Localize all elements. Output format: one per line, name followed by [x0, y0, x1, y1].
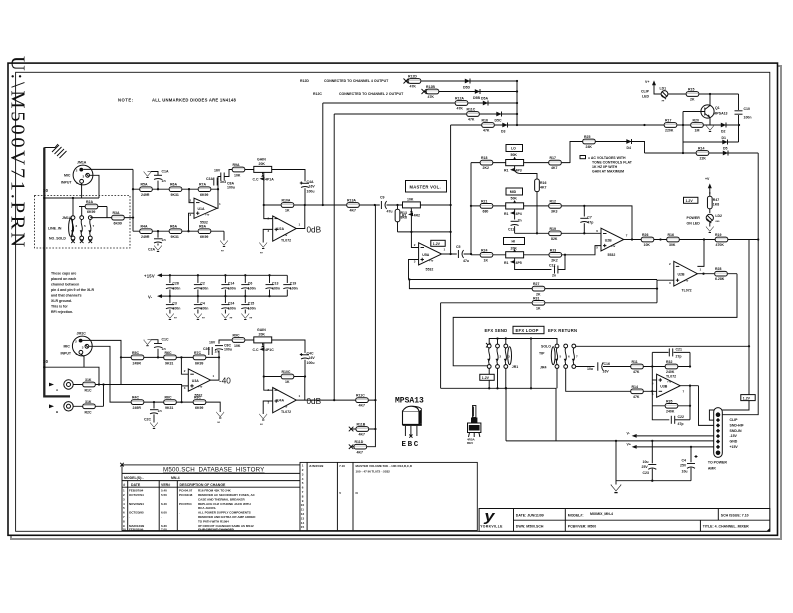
resistor R16 47K — [482, 119, 495, 133]
svg-text:6K99: 6K99 — [114, 222, 122, 226]
decoupling cap C14 100n — [221, 275, 235, 296]
svg-text:4P4: 4P4 — [516, 212, 522, 216]
resistor R20 1M — [691, 119, 704, 133]
LO pot label box — [506, 145, 523, 158]
resistor R13A 4K7 — [347, 199, 360, 213]
svg-text:CLIP: CLIP — [641, 90, 650, 94]
svg-text:C28: C28 — [172, 282, 178, 286]
svg-text:R16: R16 — [668, 233, 674, 237]
wire: channel A output bus vertical x=322.8 — [322, 103, 324, 205]
wire U1A output node x=218 — [217, 180, 218, 208]
svg-text:100n: 100n — [172, 286, 180, 290]
svg-text:EFX SEND: EFX SEND — [485, 328, 508, 333]
wire C bottom row y=402.1 — [122, 401, 206, 403]
connector pin 6 — [716, 439, 720, 443]
resistor R10C 1K — [281, 370, 294, 384]
svg-text:FEB/07/94: FEB/07/94 — [129, 489, 144, 493]
svg-text:R5C: R5C — [132, 351, 139, 355]
svg-text:1.2V: 1.2V — [433, 242, 441, 246]
svg-text:R23: R23 — [550, 248, 556, 252]
RCA jack B with arrow — [49, 402, 73, 414]
svg-text:100n: 100n — [228, 286, 236, 290]
svg-text:C4: C4 — [200, 302, 205, 306]
svg-text:This is for: This is for — [51, 305, 68, 309]
svg-text:4K7: 4K7 — [357, 450, 363, 454]
wire return amp input row y=366.5 — [625, 366, 690, 368]
svg-text:R1: R1 — [504, 212, 509, 216]
thick input ground wire x=44.3 — [44, 148, 70, 397]
wire x=506 down to gnd line — [505, 388, 507, 441]
svg-text:16V: 16V — [309, 184, 316, 188]
svg-text:MPSA13: MPSA13 — [714, 112, 728, 116]
EFX send jack JR1 — [486, 343, 518, 369]
svg-text:1K: 1K — [536, 307, 541, 311]
resistor R6C 9K31 — [164, 351, 177, 366]
svg-text:REV: REV — [467, 441, 473, 445]
wire: detector row y=153 — [645, 152, 759, 154]
resistor R11 47K — [631, 360, 644, 374]
svg-text:47K: 47K — [483, 129, 490, 133]
svg-text:C10: C10 — [744, 107, 750, 111]
wire 0dB feedback row y=205 — [264, 204, 451, 206]
svg-text:R13: R13 — [401, 211, 407, 215]
tone input bus vertical x=471 — [470, 163, 472, 255]
svg-text:R6A: R6A — [170, 183, 177, 187]
svg-text:GAIN: GAIN — [257, 158, 266, 162]
svg-text:R47: R47 — [713, 198, 719, 202]
svg-text:HI: HI — [512, 240, 516, 244]
resistor R8A 6K99 — [198, 225, 211, 240]
svg-text:R9C: R9C — [233, 334, 240, 338]
wire tone mid-row y=233.3 — [515, 232, 601, 234]
svg-text:47K: 47K — [633, 395, 640, 399]
XLR connector JM1C — [61, 332, 93, 357]
diode D5C — [495, 112, 502, 123]
svg-text:10u: 10u — [682, 470, 688, 474]
op-amp U1A — [190, 198, 222, 224]
svg-text:7.00: 7.00 — [161, 527, 167, 531]
capacitor C3C 1n — [203, 347, 219, 355]
resistor R7A 6K99 feedback — [198, 183, 211, 198]
svg-text:MASTER VOLUME 50K→10K R13,R,C,: MASTER VOLUME 50K→10K R13,R,C,D — [356, 464, 413, 468]
svg-text:TL072: TL072 — [666, 375, 676, 379]
mix bus vertical x=375.4 — [368, 205, 376, 447]
svg-text:47K: 47K — [457, 107, 464, 111]
wire loop down x=737 to y=317.4 — [453, 274, 737, 366]
svg-text:R1: R1 — [504, 261, 509, 265]
svg-text:R11C: R11C — [467, 108, 476, 112]
svg-text:16V: 16V — [214, 169, 221, 173]
svg-text:30K: 30K — [669, 243, 676, 247]
svg-text:6K99: 6K99 — [87, 210, 95, 214]
svg-text:TL072: TL072 — [281, 410, 291, 414]
svg-text:2n: 2n — [552, 274, 556, 278]
svg-text:SCH ISSUE: 7.10: SCH ISSUE: 7.10 — [721, 513, 749, 517]
svg-text:DESCRIPTION OF CHANGE: DESCRIPTION OF CHANGE — [180, 483, 227, 487]
svg-text:4K7: 4K7 — [350, 209, 356, 213]
svg-text:100n: 100n — [290, 286, 298, 290]
power-on LED branch: V+ arrow — [705, 177, 712, 194]
resistor R25 24K — [583, 135, 596, 149]
svg-text:8K8: 8K8 — [401, 216, 407, 220]
svg-text:V-: V- — [148, 294, 153, 299]
wire GND line y=440.9 — [506, 440, 714, 442]
svg-text:MIC: MIC — [64, 174, 71, 178]
svg-text:4R2: 4R2 — [414, 213, 420, 217]
resistor R12A — [455, 97, 468, 111]
+15V rail arrow — [144, 273, 162, 278]
svg-text:R10A: R10A — [282, 199, 291, 203]
capacitor C1C 1n with ground — [144, 338, 169, 358]
svg-text:INPUT: INPUT — [61, 352, 72, 356]
svg-text:C22: C22 — [678, 415, 684, 419]
connector pin 5 — [716, 434, 720, 438]
svg-text:680: 680 — [483, 209, 489, 213]
wire: summing bus vertical x=517 — [516, 81, 518, 125]
svg-text:C15: C15 — [248, 302, 254, 306]
svg-text:100n: 100n — [248, 306, 256, 310]
resistor R2C 31K — [73, 400, 103, 415]
wire U2A pin3 ground — [260, 229, 273, 255]
svg-text:JM1C: JM1C — [77, 332, 87, 336]
svg-text:U1A: U1A — [198, 207, 205, 211]
svg-text:20K: 20K — [511, 247, 518, 251]
history entries — [123, 489, 257, 532]
wire jack top bus y=338.5 — [489, 339, 557, 345]
potentiometer physical drawing — [467, 406, 481, 446]
resistor R13 8K8 vertical — [395, 205, 407, 232]
svg-text:POWER: POWER — [687, 216, 701, 220]
diode D1 — [683, 136, 739, 145]
TO POWER AMP label — [708, 461, 727, 471]
MASTER VOL. label box — [406, 181, 447, 193]
svg-text:GAIN: GAIN — [257, 328, 266, 332]
wire U2B2 pin3 from x=657 — [657, 280, 674, 303]
svg-text:and that channel's: and that channel's — [51, 294, 82, 298]
svg-text:V: V — [339, 491, 341, 495]
svg-text:0dB: 0dB — [307, 397, 322, 406]
wire x=758.2 junction from row — [757, 238, 759, 240]
capacitor C8A 100u 16V interstage — [214, 169, 235, 190]
svg-text:MIC: MIC — [64, 345, 71, 349]
svg-text:R11C: R11C — [356, 394, 365, 398]
wire: channel C output bus vertical x=334.2 — [333, 114, 335, 400]
svg-text:1.2V: 1.2V — [482, 376, 490, 380]
V- feed arrow — [627, 432, 714, 438]
svg-text:GND: GND — [730, 440, 738, 444]
svg-text:249R: 249R — [133, 406, 142, 410]
resistor R3A 6K99 — [90, 211, 133, 226]
svg-text:10: 10 — [123, 527, 127, 531]
svg-text:10u: 10u — [587, 367, 593, 371]
svg-text:Q1: Q1 — [715, 106, 720, 110]
junction dots on bus x=517 — [516, 80, 518, 82]
svg-text:16V: 16V — [603, 370, 610, 374]
svg-text:100n: 100n — [248, 286, 256, 290]
power connector shell — [714, 408, 723, 458]
svg-text:1K: 1K — [285, 380, 290, 384]
resistor R14 22K — [696, 147, 709, 161]
svg-text:C3A: C3A — [206, 177, 213, 181]
wire pot right to C4A top — [272, 170, 305, 182]
svg-text:R17: R17 — [665, 119, 671, 123]
master pot 4R2 10K — [402, 198, 420, 218]
svg-text:DATE: JUN/11/99: DATE: JUN/11/99 — [516, 513, 544, 517]
ground cap C4 — [194, 296, 208, 320]
svg-text:1K8: 1K8 — [713, 203, 719, 207]
svg-text:CASE AND THERMAL BREAKER: CASE AND THERMAL BREAKER — [198, 497, 246, 501]
svg-text:4P5: 4P5 — [516, 261, 522, 265]
svg-text:25V: 25V — [642, 465, 649, 469]
svg-text:100u: 100u — [307, 361, 315, 365]
svg-text:R6C: R6C — [165, 396, 172, 400]
svg-text:C.C: C.C — [253, 178, 260, 182]
svg-text:C16: C16 — [604, 362, 610, 366]
capacitor C16 10u 16V — [587, 362, 625, 374]
resistor R15 2K — [686, 88, 699, 102]
svg-text:100n: 100n — [172, 306, 180, 310]
svg-text:5.40: 5.40 — [161, 489, 167, 493]
svg-text:5.50: 5.50 — [161, 493, 167, 497]
svg-text:OCT/23/95: OCT/23/95 — [129, 511, 144, 515]
resistor R11B 4K7 (to ch2 out) — [349, 423, 376, 437]
svg-text:AMP.: AMP. — [708, 467, 716, 471]
svg-text:24K: 24K — [586, 145, 593, 149]
wire send bus corner x=749 to SND-HIF pin — [709, 240, 749, 421]
svg-text:1n: 1n — [162, 238, 166, 242]
svg-text:C14: C14 — [228, 282, 234, 286]
junction node collector — [709, 93, 711, 95]
wire V- rail y=296.1 — [162, 295, 287, 297]
connector pin 4 — [716, 429, 720, 433]
svg-text:1K HZ I/P WITH: 1K HZ I/P WITH — [592, 165, 618, 169]
wire channel A input vertical x=133 — [132, 169, 134, 231]
no-connect X on R12B — [422, 89, 427, 94]
svg-text:1K: 1K — [285, 209, 290, 213]
wire pot wiper down x=263.8 — [264, 172, 273, 218]
svg-text:47K: 47K — [633, 370, 640, 374]
svg-text:6K99: 6K99 — [200, 235, 208, 239]
resistor R16b 30K — [667, 233, 680, 247]
svg-text:D2: D2 — [721, 130, 726, 134]
svg-text:82K: 82K — [551, 237, 558, 241]
svg-text:PCB#/VER: M500: PCB#/VER: M500 — [568, 524, 596, 528]
svg-text:+V: +V — [705, 177, 710, 181]
svg-text:R12A: R12A — [455, 97, 464, 101]
diode D5D — [463, 79, 470, 90]
svg-text:GAIN AT MAXIMUM: GAIN AT MAXIMUM — [592, 169, 624, 173]
svg-text:R14: R14 — [632, 385, 638, 389]
svg-text:JM1A: JM1A — [77, 161, 87, 165]
connector pin labels — [730, 418, 745, 449]
note: these caps are placed — [51, 272, 94, 315]
svg-text:PC#0704: PC#0704 — [179, 502, 192, 506]
svg-text:R7A: R7A — [199, 183, 206, 187]
svg-text:7.10: 7.10 — [339, 464, 345, 468]
svg-text:R6A: R6A — [170, 225, 177, 229]
wire master wiper down to U5A pin2 — [411, 210, 418, 248]
LED LD2 power on — [687, 214, 723, 226]
resistor R12D — [408, 75, 421, 89]
svg-text:100u: 100u — [224, 348, 232, 352]
svg-text:DWN: M500.SCH: DWN: M500.SCH — [516, 524, 544, 528]
capacitor C1A 1n with ground — [144, 170, 169, 190]
svg-text:CONNECTED TO CHANNEL 2 OUTPUT: CONNECTED TO CHANNEL 2 OUTPUT — [339, 92, 404, 96]
1.2V box power — [684, 197, 698, 203]
svg-text:y: y — [483, 509, 495, 525]
capacitor C9 47u coupling — [380, 196, 393, 214]
svg-text:1n: 1n — [158, 409, 162, 413]
diode D5B — [473, 89, 480, 100]
svg-text:16V: 16V — [309, 356, 316, 360]
svg-text:R12D: R12D — [408, 75, 417, 79]
svg-text:R14: R14 — [698, 147, 704, 151]
svg-text:LO: LO — [511, 147, 516, 151]
svg-text:ALL POWER SUPPLY COMPONENTS: ALL POWER SUPPLY COMPONENTS — [198, 511, 251, 515]
resistor R14b 47K — [631, 385, 644, 399]
resistor R47 1K8 vertical — [707, 192, 719, 213]
svg-text:100n: 100n — [200, 286, 208, 290]
resistor R35 240K — [652, 399, 690, 413]
svg-text:1n: 1n — [215, 350, 219, 354]
svg-text:16V: 16V — [209, 341, 216, 345]
summing bus vertical x=450.6 — [450, 125, 452, 254]
svg-text:2K: 2K — [690, 98, 695, 102]
svg-text:R18: R18 — [481, 156, 487, 160]
wire pot right to C4C — [272, 340, 305, 353]
svg-text:4K7: 4K7 — [359, 404, 365, 408]
svg-text:6.28K: 6.28K — [715, 277, 725, 281]
svg-text:C9: C9 — [380, 196, 385, 200]
wire lower loop x=652.3 down — [652, 391, 669, 420]
svg-text:MASTER VOL.: MASTER VOL. — [410, 185, 441, 190]
wire input row y=189.2 — [133, 188, 218, 190]
svg-text:NOV/29/94: NOV/29/94 — [129, 502, 144, 506]
svg-text:MN-4: MN-4 — [171, 476, 180, 480]
corner mark — [767, 528, 770, 531]
svg-text:C13: C13 — [272, 282, 278, 286]
svg-text:FEB/03/99: FEB/03/99 — [129, 527, 144, 531]
svg-text:SND-IN: SND-IN — [730, 429, 743, 433]
wire U2B2 output to R28 — [697, 273, 737, 275]
resistor R11C — [467, 108, 480, 122]
resistor R5C 249R — [131, 351, 144, 366]
svg-text:6K99: 6K99 — [200, 193, 208, 197]
wire shield row y=198 — [44, 197, 99, 199]
svg-text:1.2V: 1.2V — [686, 199, 694, 203]
svg-text:C4: C4 — [682, 459, 687, 463]
wire XLR C pin1 down to shield row — [81, 354, 84, 367]
svg-text:These caps are: These caps are — [51, 272, 76, 276]
svg-text:6K99: 6K99 — [195, 361, 203, 365]
capacitor C4C 100u 16V — [300, 352, 316, 377]
border inner frame — [16, 72, 770, 531]
dashed insert box — [35, 196, 131, 249]
svg-text:1M: 1M — [695, 129, 700, 133]
op-amp U3A — [184, 369, 215, 398]
svg-text:100→47 IN TL072→5532: 100→47 IN TL072→5532 — [356, 469, 391, 473]
line input jack JM1B contacts — [48, 216, 95, 243]
ground on rail — [611, 481, 621, 493]
wire XLR C pin2 right and down x=121 — [83, 340, 122, 384]
junction dots y=125 — [643, 124, 645, 126]
wire U2A output up to row — [296, 205, 305, 229]
wire amp chain row y=239.5 — [632, 239, 758, 241]
connector pin 2 — [716, 418, 720, 422]
svg-text:13: 13 — [301, 516, 305, 520]
diode D5A — [481, 97, 488, 106]
1.2V box — [431, 240, 445, 246]
svg-text:C21: C21 — [676, 348, 682, 352]
svg-text:M500.SCH_DATABASE_HISTORY: M500.SCH_DATABASE_HISTORY — [163, 467, 265, 474]
svg-text:12: 12 — [301, 512, 305, 516]
wire: vertical x=738.5 D-node — [738, 125, 740, 142]
junction dots on rails — [169, 274, 171, 276]
resistor R7C 6K99 feedback — [193, 351, 206, 366]
svg-text:LD1: LD1 — [660, 87, 667, 91]
wire pin3 stub — [182, 385, 189, 387]
MID pot label box — [506, 188, 523, 201]
wire psu rail y=480.7 — [616, 441, 691, 481]
svg-text:4K7: 4K7 — [551, 166, 557, 170]
svg-text:EBC: EBC — [402, 441, 420, 449]
svg-text:R28: R28 — [715, 267, 721, 271]
svg-text:JUN/15/99: JUN/15/99 — [309, 464, 324, 468]
diode D4 — [626, 139, 631, 150]
capacitor C22 47p — [671, 415, 690, 426]
resistor R24 1K — [480, 248, 493, 262]
svg-text:MID: MID — [510, 190, 517, 194]
svg-text:100u: 100u — [307, 189, 315, 193]
svg-text:R21: R21 — [481, 199, 487, 203]
svg-text:10K: 10K — [407, 198, 414, 202]
svg-text:R2C: R2C — [85, 410, 92, 414]
svg-text:D3: D3 — [501, 130, 506, 134]
wire return top to send bus y=346.8 — [576, 345, 749, 347]
svg-text:V+: V+ — [627, 443, 631, 447]
svg-text:DATE: DATE — [131, 483, 141, 487]
svg-text:R8C: R8C — [194, 396, 201, 400]
svg-text:249R: 249R — [141, 235, 150, 239]
svg-text:C.C: C.C — [253, 348, 260, 352]
wire RCA B up to row — [103, 385, 105, 407]
svg-text:47p: 47p — [678, 422, 684, 426]
svg-text:OCT/27/94: OCT/27/94 — [129, 493, 144, 497]
V+ feed arrow — [627, 443, 714, 449]
svg-text:C1A: C1A — [162, 170, 169, 174]
svg-text:5532: 5532 — [608, 253, 616, 257]
wire shield row y=367.2 — [44, 367, 99, 384]
channel A: chassis stub + hatch — [44, 144, 66, 158]
connector pin 7 — [716, 445, 720, 449]
svg-text:100n: 100n — [200, 306, 208, 310]
border outer frame — [8, 63, 778, 535]
wire LED supply — [654, 91, 739, 94]
resistor R16 4K7 vertical — [535, 179, 547, 233]
resistor R9A 10K — [229, 163, 254, 178]
wire R31 line y=302.8 — [441, 302, 657, 304]
resistor R6C2 9K31 — [164, 396, 177, 411]
svg-text:2K2: 2K2 — [551, 258, 557, 262]
svg-text:pin 4 and pin 9 of the XLR: pin 4 and pin 9 of the XLR — [51, 288, 94, 292]
wire efx bottom row y=388.3 — [441, 388, 556, 441]
wire pin2 drop x=704 to U2B2 — [697, 240, 704, 267]
svg-text:47K: 47K — [428, 95, 435, 99]
svg-text:47K: 47K — [410, 85, 417, 89]
svg-text:R1: R1 — [504, 169, 509, 173]
capacitor C2C 1n with ground — [144, 402, 162, 428]
wire return left contact down to row end — [556, 368, 558, 388]
